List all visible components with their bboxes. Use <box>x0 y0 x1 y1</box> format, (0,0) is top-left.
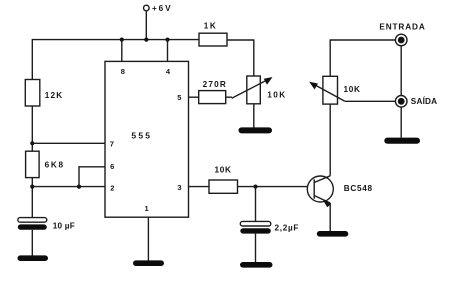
node junction pin8 bus <box>120 38 124 42</box>
op-amp U1 555 body <box>105 61 189 217</box>
node junction base-capacitor <box>253 185 257 189</box>
svg-text:+6V: +6V <box>152 4 173 13</box>
capacitor C1 10uF bottom plate <box>18 224 47 229</box>
node junction pin2 <box>30 185 34 189</box>
svg-text:7: 7 <box>110 139 114 148</box>
svg-text:270R: 270R <box>203 80 227 89</box>
wire node to C2 <box>255 187 257 222</box>
svg-text:10 µF: 10 µF <box>53 222 75 231</box>
svg-text:1K: 1K <box>204 21 217 30</box>
svg-text:6K8: 6K8 <box>45 160 65 169</box>
node junction supply bus <box>144 38 148 42</box>
svg-text:ENTRADA: ENTRADA <box>379 22 425 31</box>
wire supply to bus <box>145 11 147 40</box>
wire pin 5 <box>189 96 199 98</box>
wire ENTRADA to SAIDA <box>400 46 402 96</box>
wire 6K8 to node <box>31 178 33 218</box>
wire 1K to pot P1 <box>227 40 254 76</box>
node junction pin4 bus <box>165 38 169 42</box>
wire C1 to ground <box>31 230 33 256</box>
capacitor C1 10uF top plate <box>18 218 47 223</box>
wire pin 1 <box>147 217 149 261</box>
resistor 10K base <box>209 180 238 193</box>
wire emitter to ground <box>329 203 331 231</box>
svg-text:555: 555 <box>131 130 152 140</box>
resistor 6K8 <box>26 151 39 177</box>
ground under C1 <box>18 255 49 261</box>
svg-text:5: 5 <box>177 93 181 102</box>
svg-text:2,2µF: 2,2µF <box>275 224 300 233</box>
resistor 270R <box>199 91 226 104</box>
node junction pin6 branch <box>77 185 81 189</box>
svg-text:10K: 10K <box>267 90 286 99</box>
svg-text:BC548: BC548 <box>344 184 373 193</box>
ground under pin 1 <box>133 260 164 266</box>
resistor 1K <box>199 33 227 46</box>
+6V supply terminal <box>144 5 150 11</box>
wire SAIDA to ground <box>400 107 402 138</box>
wire C2 to ground <box>255 234 257 263</box>
ground under emitter <box>317 231 349 237</box>
ground under P1 <box>239 127 273 133</box>
transistor Q1 BC548 <box>307 176 333 207</box>
wire pin3 resistor to transistor base <box>238 186 308 188</box>
wire P2 top to ENTRADA <box>330 40 395 76</box>
wire 12K to node <box>31 106 33 151</box>
potentiometer P2 10K body <box>323 76 338 104</box>
capacitor C2 2.2uF bottom plate <box>240 228 270 233</box>
svg-text:3: 3 <box>177 183 181 192</box>
svg-text:SAÍDA: SAÍDA <box>411 96 437 106</box>
svg-text:8: 8 <box>121 67 125 76</box>
svg-text:1: 1 <box>145 204 149 213</box>
wire pin 7 <box>32 142 105 144</box>
wire pin 8 <box>121 40 123 62</box>
potentiometer P1 wiper arrow <box>232 77 273 98</box>
potentiometer P2 wiper arrow <box>309 82 344 101</box>
wire collector to pot P2 <box>329 104 331 176</box>
svg-text:10K: 10K <box>214 165 231 174</box>
ground under SAIDA <box>384 138 420 144</box>
connector SAIDA jack <box>395 96 407 108</box>
wire pin 3 <box>189 186 210 188</box>
svg-text:12K: 12K <box>45 91 64 100</box>
svg-text:6: 6 <box>110 162 114 171</box>
wire top bus <box>32 39 199 41</box>
svg-text:2: 2 <box>110 184 114 193</box>
wire 270R to wiper <box>226 96 232 98</box>
resistor 12K <box>25 80 40 107</box>
wire P1 to ground <box>253 104 255 128</box>
wire P2 wiper to SAIDA <box>344 100 395 102</box>
wire left rail upper <box>31 39 33 80</box>
potentiometer P1 10K body <box>247 76 260 104</box>
ground under C2 <box>240 262 273 268</box>
connector ENTRADA jack <box>395 34 407 46</box>
svg-text:10K: 10K <box>344 85 361 94</box>
wire pin 4 <box>167 40 169 62</box>
node junction pin7 <box>30 141 34 145</box>
wire pin 2 <box>32 186 105 188</box>
capacitor C2 2.2uF top plate <box>240 221 270 226</box>
wire pin 6 branch <box>79 167 105 187</box>
